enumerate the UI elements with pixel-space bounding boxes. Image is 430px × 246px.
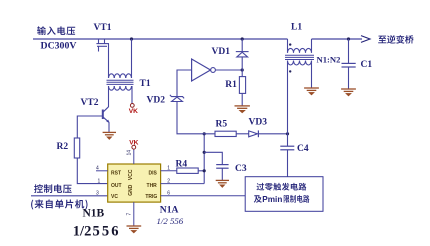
wire node A to R1 top xyxy=(241,70,243,77)
transformer T1 core xyxy=(107,80,134,84)
svg-text:1/2 556: 1/2 556 xyxy=(157,216,184,226)
label (来自单片机) xyxy=(31,200,87,210)
svg-text:GND: GND xyxy=(128,184,134,196)
svg-text:OUT: OUT xyxy=(111,183,122,189)
inductor L1 core xyxy=(285,55,314,59)
label 控制电压 xyxy=(34,184,72,193)
svg-text:C3: C3 xyxy=(235,164,247,174)
wire top rail left segment xyxy=(33,38,288,40)
wire top rail right segment xyxy=(312,38,363,40)
svg-text:Pmin: Pmin xyxy=(262,195,282,204)
label input voltage 输入电压 xyxy=(37,26,75,35)
svg-text:7: 7 xyxy=(127,213,133,216)
wire VD2 down and right to R5 xyxy=(177,102,215,134)
svg-text:1: 1 xyxy=(98,178,101,184)
diode VD3 xyxy=(249,131,258,137)
wire rail down to L1 left xyxy=(287,39,289,53)
svg-text:VD3: VD3 xyxy=(249,118,268,128)
phase dot L1 bottom xyxy=(289,70,291,72)
svg-text:VT2: VT2 xyxy=(81,98,99,108)
svg-text:DIS: DIS xyxy=(148,171,157,177)
svg-text:TRIG: TRIG xyxy=(145,194,157,200)
svg-text:VD2: VD2 xyxy=(147,96,166,106)
svg-text:N1A: N1A xyxy=(160,205,179,216)
ground below C3 xyxy=(216,180,229,187)
capacitor C3 xyxy=(216,165,228,169)
svg-text:R2: R2 xyxy=(57,142,69,152)
ground below L1 secondary xyxy=(304,88,319,95)
svg-text:N1B: N1B xyxy=(83,208,105,220)
node junction on rail at C1 xyxy=(347,37,350,40)
svg-text:14: 14 xyxy=(127,150,133,156)
wire L1 secondary left down to node B xyxy=(287,61,289,134)
svg-text:R5: R5 xyxy=(216,119,228,129)
svg-text:N1:N2: N1:N2 xyxy=(317,55,341,65)
arrow to inverter bridge xyxy=(361,36,370,43)
svg-text:C4: C4 xyxy=(297,144,309,154)
node A junction (VD1/R1/inverter) xyxy=(241,68,244,71)
wire inverter output to node A xyxy=(215,69,242,71)
resistor R4 xyxy=(177,168,198,173)
svg-text:R1: R1 xyxy=(225,80,237,90)
capacitor C4 xyxy=(280,146,294,150)
op-amp U2 inverter gate xyxy=(192,59,211,81)
wire VT2 base to R2 xyxy=(77,116,103,138)
svg-text:VCC: VCC xyxy=(128,169,134,180)
node junction on rail at VD1 xyxy=(241,37,244,40)
svg-text:T1: T1 xyxy=(140,79,151,89)
phase dot L1 top xyxy=(289,43,291,45)
wire C3 to ground xyxy=(221,168,223,180)
transformer T1 secondary winding xyxy=(109,86,132,90)
wire R4 to bus xyxy=(198,170,204,172)
wire rail down to T1 primary right xyxy=(131,39,133,78)
wire R2 bottom to N1B OUT pin xyxy=(77,158,107,184)
wire THR pin to bus xyxy=(161,183,205,185)
wire R5 to VD3 xyxy=(236,133,249,135)
ground below R1 xyxy=(235,106,250,113)
resistor R2 xyxy=(74,138,79,158)
wire VT2 emitter to ground xyxy=(108,122,110,132)
node bus-R5 junction xyxy=(203,132,206,135)
wire rail down to L1 right xyxy=(311,39,313,53)
wire L1 secondary right to ground xyxy=(311,61,313,88)
svg-text:VT1: VT1 xyxy=(94,23,112,33)
wire DIS pin to R4 xyxy=(161,170,177,172)
label 及Pmin限制电路 xyxy=(254,195,262,202)
node B junction (L1 sec / C4) xyxy=(286,132,289,135)
inductor L1 primary winding xyxy=(288,48,312,52)
svg-text:C1: C1 xyxy=(361,60,373,70)
diode VD2 (zener) xyxy=(170,95,184,102)
terminal VK (T1 secondary) xyxy=(130,104,134,108)
label 至逆变桥 xyxy=(378,35,413,44)
capacitor C1 xyxy=(342,63,356,67)
pin stub RST xyxy=(96,170,108,172)
pin 14 stub to VK terminal xyxy=(133,149,135,164)
inductor L1 secondary winding xyxy=(288,61,312,65)
ground below C1 xyxy=(341,89,356,96)
label 过零触发电路 xyxy=(257,183,307,191)
wire rail to C1 xyxy=(348,39,350,63)
wire VD3 to node B xyxy=(258,133,287,135)
diode VD1 xyxy=(236,52,249,57)
wire bus to C3 xyxy=(204,152,222,164)
resistor R5 xyxy=(215,131,236,136)
wire VD1 to node A xyxy=(241,57,243,70)
transistor VT1 (MOSFET symbol) xyxy=(96,39,109,52)
svg-text:4: 4 xyxy=(96,166,99,172)
resistor R1 xyxy=(239,77,245,94)
svg-text:556: 556 xyxy=(93,224,121,240)
svg-text:L1: L1 xyxy=(291,22,302,32)
node junction on rail at T1 right drop xyxy=(130,37,133,40)
ground below IC pin 7 xyxy=(127,226,142,233)
wire control voltage to VC pin xyxy=(31,195,108,197)
ground below VT2 xyxy=(103,132,116,139)
wire R1 to ground xyxy=(241,93,243,106)
svg-text:VD1: VD1 xyxy=(212,47,231,57)
wire C4 to trigger box xyxy=(287,150,289,177)
wire TRIG pin to trigger box xyxy=(161,195,246,197)
wire node B to C4 xyxy=(287,134,289,146)
terminal VK (above IC) xyxy=(132,145,136,149)
wire rail to VD1 xyxy=(241,39,243,52)
svg-text:3: 3 xyxy=(96,191,99,197)
svg-text:THR: THR xyxy=(147,183,158,189)
svg-text:1/2: 1/2 xyxy=(73,224,92,240)
svg-text:VK: VK xyxy=(129,140,138,147)
wire T1 secondary left down to VT2 collector xyxy=(108,86,110,107)
svg-text:DC300V: DC300V xyxy=(41,41,77,52)
op-amp/timer U N1 (1/2 556) body xyxy=(108,164,161,202)
wire VT1 source down to T1 primary xyxy=(108,44,110,78)
svg-text:VK: VK xyxy=(129,108,138,115)
transformer T1 primary winding xyxy=(109,74,132,78)
block zero-cross trigger circuit box xyxy=(245,177,323,212)
transistor VT2 xyxy=(103,107,109,123)
node bus-C3 junction xyxy=(203,151,206,154)
wire vertical bus x=204 xyxy=(203,134,205,184)
svg-text:VC: VC xyxy=(111,194,118,200)
wire T1 secondary right down to VK terminal xyxy=(131,86,133,103)
wire C1 to ground xyxy=(348,67,350,89)
svg-text:RST: RST xyxy=(111,171,121,177)
wire inverter input to VD2 xyxy=(177,70,192,97)
node bus-R4 junction xyxy=(203,169,206,172)
pin 7 stub to ground xyxy=(133,202,135,226)
